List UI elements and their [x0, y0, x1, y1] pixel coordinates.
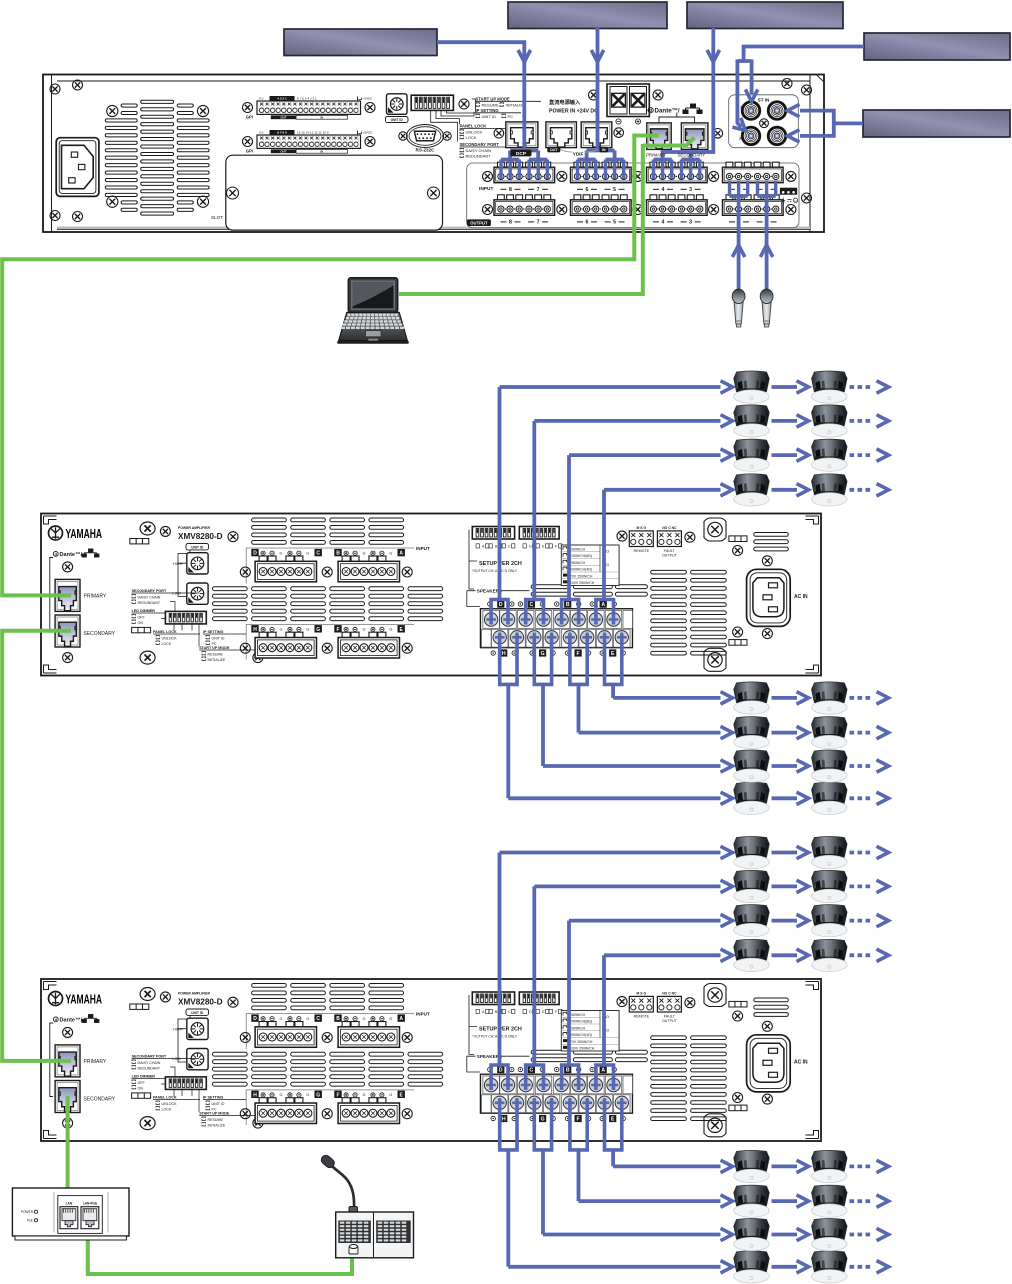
svg-text:B: B — [336, 551, 340, 557]
svg-text:G: G — [541, 651, 545, 657]
ceiling speaker — [812, 682, 848, 714]
svg-text:4: 4 — [662, 220, 665, 226]
vent grid MTX — [105, 100, 209, 215]
YAMAHA logo — [49, 992, 103, 1007]
svg-text:C: C — [508, 545, 511, 549]
svg-text:UNIT ID: UNIT ID — [191, 1011, 204, 1015]
speaker row (XMV2 ch) — [534, 870, 888, 902]
AC IN inlet — [747, 569, 791, 626]
svg-text:A: A — [399, 551, 403, 557]
svg-text:PRIMARY: PRIMARY — [84, 1059, 107, 1065]
svg-text:UNIT ID: UNIT ID — [212, 636, 225, 640]
speaker wires XMV2 outputs A-D — [491, 1065, 508, 1090]
svg-text:OFF: OFF — [138, 1081, 146, 1085]
svg-text:4: 4 — [662, 187, 665, 193]
ceiling speaker — [734, 439, 770, 471]
svg-text:UNIT ID: UNIT ID — [482, 114, 496, 119]
svg-text:AC IN: AC IN — [794, 1059, 808, 1065]
SETUP PER 2CH DIP blocks — [472, 992, 514, 1005]
SLOT — [226, 155, 443, 230]
svg-text:RESUME: RESUME — [208, 1118, 224, 1122]
svg-text:240W/CH(8Ω): 240W/CH(8Ω) — [570, 1020, 592, 1024]
RCA jack ST IN R — [767, 126, 786, 145]
svg-text:REDUNDANT: REDUNDANT — [466, 154, 492, 159]
RJ45 port Dante SECONDARY XMV1 — [55, 615, 80, 647]
speaker row (XMV1 ch) — [534, 405, 888, 437]
INPUT bracket — [246, 1014, 414, 1050]
svg-text:3: 3 — [689, 220, 692, 226]
device XMV8280-D power amplifier 2 rear panel — [41, 979, 821, 1141]
ceiling speaker — [734, 405, 770, 437]
callout box label 2 (YDIF device) — [508, 2, 667, 29]
svg-text:POWER AMPLIFIER: POWER AMPLIFIER — [178, 992, 210, 996]
svg-text:IP SETTING: IP SETTING — [203, 1096, 224, 1100]
svg-text:D: D — [253, 1016, 257, 1022]
svg-text:B: B — [336, 1016, 340, 1022]
svg-text:G: G — [306, 551, 309, 555]
speaker row (XMV2 ch) — [613, 1150, 888, 1182]
callout box label 5 (stereo source B) — [863, 110, 1010, 137]
ceiling speaker — [734, 1150, 770, 1182]
REMOTE connector — [629, 996, 653, 1012]
input euroblock D/C — [251, 1014, 258, 1021]
speaker row (XMV1 ch) — [569, 439, 889, 471]
svg-text:B: B — [566, 602, 570, 608]
svg-text:8 7 6 5: 8 7 6 5 — [277, 131, 287, 135]
svg-text:UNIT ID: UNIT ID — [391, 118, 404, 122]
DIP setting leader lines — [431, 99, 476, 142]
svg-text:IP SETTING: IP SETTING — [476, 108, 499, 113]
vent slats right — [651, 998, 789, 1121]
svg-text:260W/CH: 260W/CH — [570, 1013, 586, 1017]
svg-text:G: G — [316, 627, 320, 633]
svg-text:GPI: GPI — [246, 115, 253, 120]
RJ45 port Dante PRIMARY XMV2 — [55, 1045, 80, 1077]
svg-text:100V 250W/CH: 100V 250W/CH — [570, 1047, 595, 1051]
svg-text:RS-232C: RS-232C — [416, 148, 436, 153]
ceiling speaker — [734, 1251, 770, 1283]
GPI connector row 2 — [246, 130, 374, 154]
port labels over wires — [560, 150, 598, 153]
svg-text:G: G — [389, 1093, 392, 1097]
svg-text:5: 5 — [613, 220, 616, 226]
svg-text:G: G — [280, 1017, 283, 1021]
svg-text:HIGH: HIGH — [173, 562, 183, 566]
svg-text:UNLOCK: UNLOCK — [466, 130, 483, 135]
svg-text:16 15 14 13 12 11 10 9: 16 15 14 13 12 11 10 9 — [297, 130, 329, 134]
rack ear screws — [50, 84, 60, 94]
rotary switch UNIT ID MTX — [387, 94, 408, 115]
svg-text:PoE: PoE — [27, 1219, 33, 1223]
svg-text:RESUME: RESUME — [208, 652, 224, 656]
RJ45 port YDIF IN — [581, 122, 612, 148]
svg-text:G: G — [541, 1117, 545, 1123]
svg-text:8: 8 — [509, 187, 512, 193]
svg-text:Dante™/: Dante™/ — [60, 552, 83, 558]
speaker row (XMV1 ch) — [508, 782, 888, 814]
svg-text:NO C NC: NO C NC — [662, 526, 677, 530]
ceiling speaker — [812, 837, 848, 869]
svg-text:IN: IN — [602, 148, 606, 152]
svg-text:d: d — [649, 108, 652, 113]
UNIT ID rotary switches — [186, 544, 209, 550]
speaker row (XMV2 ch) — [508, 1251, 888, 1283]
RCA jack ST IN 2R — [741, 126, 760, 145]
svg-text:240W/CH(8Ω): 240W/CH(8Ω) — [570, 554, 592, 558]
svg-text:D: D — [529, 545, 532, 549]
ceiling speaker — [734, 939, 770, 971]
ceiling speaker — [812, 474, 848, 506]
REMOTE connector — [629, 531, 653, 547]
wire PoE switch to paging station (green) — [88, 1238, 352, 1274]
wire callout2 to YDIF input comb — [596, 28, 600, 151]
input euroblock H/G — [251, 1091, 258, 1098]
ceiling speaker — [812, 1219, 848, 1251]
vent slats left — [213, 984, 443, 1087]
ceiling speaker — [734, 870, 770, 902]
svg-text:NO C NC: NO C NC — [662, 992, 677, 996]
input euroblock F/E — [334, 625, 341, 632]
speaker wires XMV2 outputs E-H — [500, 1099, 517, 1150]
input euroblock D/C — [251, 549, 258, 556]
RJ45 port LAN — [60, 1207, 78, 1229]
svg-text:OUTPUT: OUTPUT — [662, 1019, 678, 1023]
ceiling speaker — [734, 1219, 770, 1251]
svg-text:LAN: LAN — [66, 1202, 73, 1206]
svg-text:A: A — [399, 1016, 403, 1022]
svg-text:Dante™/: Dante™/ — [655, 108, 680, 115]
svg-text:280W/CH: 280W/CH — [570, 1026, 586, 1030]
ceiling speaker — [812, 717, 848, 749]
POWER terminal block 24V — [607, 84, 649, 117]
wire Dante PRIMARY MTX to XMV1 PRIMARY (green) — [2, 136, 659, 596]
svg-text:LOCK: LOCK — [162, 642, 172, 646]
svg-text:E: E — [611, 1117, 615, 1123]
speaker row (XMV1 ch) — [613, 682, 888, 714]
RJ45 port Dante PRIMARY MTX — [647, 123, 671, 149]
svg-text:C: C — [508, 1010, 511, 1014]
RCA jack ST IN 2L — [741, 101, 760, 120]
svg-text:LED DIMMER: LED DIMMER — [132, 1075, 156, 1079]
Dante logo XMV — [53, 1017, 58, 1022]
ceiling speaker — [734, 717, 770, 749]
speaker row (XMV1 ch) — [579, 717, 889, 749]
svg-text:70V 250W/CH: 70V 250W/CH — [570, 1040, 593, 1044]
svg-text:SECONDARY: SECONDARY — [84, 631, 116, 637]
input euroblock H/G — [251, 625, 258, 632]
svg-text:YAMAHA: YAMAHA — [66, 993, 103, 1007]
svg-text:A: A — [601, 1068, 605, 1074]
svg-text:DAISY CHAIN: DAISY CHAIN — [138, 1061, 161, 1065]
svg-text:+5VDC: +5VDC — [363, 130, 374, 134]
svg-text:590W/CH(4Ω): 590W/CH(4Ω) — [570, 1033, 592, 1037]
svg-text:+5VDC: +5VDC — [363, 96, 374, 100]
svg-text:3: 3 — [689, 187, 692, 193]
svg-text:F: F — [336, 627, 339, 633]
input euroblock B/A — [334, 1014, 341, 1021]
svg-text:G: G — [280, 551, 283, 555]
svg-text:REMOTE: REMOTE — [634, 549, 650, 553]
svg-text:G: G — [389, 1017, 392, 1021]
DIP switch XMV — [165, 611, 206, 624]
ceiling speaker — [734, 682, 770, 714]
ceiling speaker — [812, 371, 848, 403]
INPUT bracket — [246, 548, 414, 584]
svg-text:*OUTPUT CH: A B C D ONLY: *OUTPUT CH: A B C D ONLY — [472, 569, 517, 573]
computer (laptop) — [337, 278, 409, 344]
UNIT ID rotary switches — [186, 1009, 209, 1015]
GPI connector row 1 — [246, 96, 374, 120]
svg-text:G: G — [280, 628, 283, 632]
svg-text:UNIT ID: UNIT ID — [191, 546, 204, 550]
svg-text:F: F — [336, 1092, 339, 1098]
svg-text:OUT: OUT — [550, 148, 558, 152]
ceiling speaker — [734, 474, 770, 506]
ceiling speaker — [812, 905, 848, 937]
power mode table — [561, 1011, 619, 1052]
YAMAHA logo — [49, 526, 103, 541]
svg-text:DAISY CHAIN: DAISY CHAIN — [138, 595, 161, 599]
svg-text:YDIF: YDIF — [573, 151, 584, 156]
svg-text:C: C — [316, 551, 320, 557]
device MTX5-D matrix processor rear panel — [43, 75, 824, 233]
ceiling speaker — [812, 1185, 848, 1217]
svg-text:PANEL LOCK: PANEL LOCK — [153, 1096, 177, 1100]
svg-text:ON: ON — [138, 1086, 144, 1090]
svg-text:D: D — [529, 1010, 532, 1014]
ceiling speaker — [812, 870, 848, 902]
svg-text:POWER: POWER — [21, 1210, 34, 1214]
svg-text:YAMAHA: YAMAHA — [66, 527, 103, 541]
svg-text:LOCK: LOCK — [466, 135, 477, 140]
svg-text:G: G — [363, 628, 366, 632]
svg-text:UNLOCK: UNLOCK — [162, 636, 178, 640]
svg-text:LAN+PoE: LAN+PoE — [83, 1202, 98, 1206]
svg-text:SECONDARY: SECONDARY — [84, 1097, 116, 1103]
svg-text:100V 250W/CH: 100V 250W/CH — [570, 581, 595, 585]
svg-text:7: 7 — [537, 220, 540, 226]
svg-text:G: G — [363, 1093, 366, 1097]
svg-text:START UP MODE: START UP MODE — [199, 646, 230, 650]
svg-text:2R: 2R — [739, 137, 744, 141]
DIP switch XMV — [165, 1077, 206, 1090]
speaker row (XMV2 ch) — [543, 1219, 889, 1251]
vent slats left — [213, 518, 443, 621]
svg-text:D: D — [499, 1068, 503, 1074]
svg-text:C: C — [530, 1068, 534, 1074]
svg-text:M S G: M S G — [636, 992, 646, 996]
svg-text:DAISY CHAIN: DAISY CHAIN — [466, 148, 492, 153]
svg-text:PC: PC — [508, 114, 514, 119]
wire Dante SECONDARY MTX to computer (green) — [643, 138, 695, 146]
wire callout5 to ST IN L R — [834, 122, 863, 126]
svg-text:IN: IN — [320, 150, 323, 154]
svg-text:SECONDARY PORT: SECONDARY PORT — [132, 589, 167, 593]
speaker row (XMV1 ch) — [543, 750, 889, 782]
svg-text:8: 8 — [509, 220, 512, 226]
ceiling speaker — [734, 905, 770, 937]
AC inlet MTX — [56, 138, 99, 197]
svg-text:XMV8280-D: XMV8280-D — [178, 998, 223, 1007]
FAULT OUTPUT connector — [657, 531, 681, 547]
RS-232C port — [399, 125, 451, 148]
RJ45 port Dante SECONDARY XMV2 — [55, 1081, 80, 1113]
svg-text:4 3 2 1: 4 3 2 1 — [277, 97, 287, 101]
Dante logo MTX — [648, 108, 653, 113]
svg-text:G: G — [389, 628, 392, 632]
svg-text:H: H — [502, 1117, 506, 1123]
svg-text:AC IN: AC IN — [794, 594, 808, 600]
svg-text:*OUTPUT CH: A B C D ONLY: *OUTPUT CH: A B C D ONLY — [472, 1035, 517, 1039]
svg-text:ON: ON — [138, 621, 144, 625]
svg-text:IN: IN — [320, 116, 323, 120]
vent slats right — [651, 533, 789, 656]
speaker row (XMV1 ch) — [500, 371, 889, 403]
OUTPUT euroblocks MTX — [493, 199, 556, 203]
FAULT OUTPUT connector — [657, 996, 681, 1012]
svg-text:UNIT ID: UNIT ID — [212, 1102, 225, 1106]
ceiling speaker — [812, 750, 848, 782]
callout box label 4 (stereo source A) — [864, 33, 1010, 60]
svg-text:INPUT: INPUT — [479, 186, 493, 192]
svg-text:7: 7 — [537, 187, 540, 193]
wire callout4 to ST IN 2L 2R — [744, 47, 864, 60]
svg-text:G: G — [363, 1017, 366, 1021]
svg-text:LED DIMMER: LED DIMMER — [132, 609, 156, 613]
microphone 2 — [760, 289, 773, 327]
svg-text:H: H — [502, 651, 506, 657]
callout box label 1 (DCP controller) — [284, 29, 437, 56]
bracket Dante ports — [659, 113, 695, 123]
RJ45 port Dante PRIMARY XMV1 — [55, 579, 80, 611]
power mode table — [561, 545, 619, 586]
svg-text:OFF: OFF — [138, 615, 146, 619]
svg-text:D: D — [499, 602, 503, 608]
svg-text:UNLOCK: UNLOCK — [162, 1102, 178, 1106]
svg-text:G: G — [306, 1017, 309, 1021]
svg-text:G: G — [306, 1093, 309, 1097]
paging microphone station — [320, 1154, 414, 1258]
speaker row (XMV2 ch) — [500, 837, 889, 869]
svg-text:GPI: GPI — [246, 149, 253, 154]
svg-text:U: U — [794, 199, 796, 203]
svg-text:INITIALIZE: INITIALIZE — [208, 1123, 226, 1127]
RJ45 port LAN+PoE — [81, 1207, 99, 1229]
svg-text:START UP MODE: START UP MODE — [199, 1112, 230, 1116]
ceiling speaker — [812, 782, 848, 814]
input euroblock B/A — [334, 549, 341, 556]
svg-text:G: G — [316, 1092, 320, 1098]
RJ45 port DCP — [506, 122, 538, 148]
svg-text:G: G — [363, 551, 366, 555]
svg-text:XMV8280-D: XMV8280-D — [178, 532, 223, 541]
ceiling speaker — [812, 1150, 848, 1182]
svg-text:PANEL LOCK: PANEL LOCK — [460, 123, 487, 128]
ceiling speaker — [734, 750, 770, 782]
svg-text:INPUT: INPUT — [416, 1011, 430, 1016]
speaker row (XMV1 ch) — [604, 474, 889, 506]
svg-text:HIGH: HIGH — [173, 1028, 183, 1032]
Dante logo XMV — [53, 552, 58, 557]
speaker row (XMV2 ch) — [604, 939, 889, 971]
ST IN RCA block — [729, 95, 799, 148]
svg-text:6: 6 — [586, 187, 589, 193]
callout box label 3 (Dante device) — [687, 2, 843, 29]
input euroblock F/E — [334, 1091, 341, 1098]
wire callout3 to Dante input comb — [663, 28, 714, 160]
svg-text:A: A — [601, 602, 605, 608]
svg-text:8 7 6 5 4 3 2 1: 8 7 6 5 4 3 2 1 — [297, 96, 317, 100]
svg-text:D: D — [253, 551, 257, 557]
svg-text:Dante™/: Dante™/ — [60, 1018, 83, 1024]
svg-text:START UP MODE: START UP MODE — [476, 96, 510, 101]
svg-text:直流电源输入: 直流电源输入 — [549, 98, 581, 106]
svg-text:SECONDARY PORT: SECONDARY PORT — [460, 142, 500, 147]
INPUT euroblocks MTX — [494, 162, 555, 183]
svg-text:SECONDARY: SECONDARY — [678, 152, 706, 157]
svg-text:POWER AMPLIFIER: POWER AMPLIFIER — [178, 526, 210, 530]
svg-text:0 0: 0 0 — [259, 130, 264, 134]
ceiling speaker — [812, 405, 848, 437]
svg-text:LOCK: LOCK — [162, 1107, 172, 1111]
RJ45 port Dante SECONDARY MTX — [681, 123, 708, 149]
svg-text:F: F — [577, 1117, 580, 1123]
svg-text:C: C — [530, 602, 534, 608]
svg-text:OUT: OUT — [280, 116, 286, 120]
ceiling speaker — [734, 782, 770, 814]
svg-text:PRIMARY: PRIMARY — [646, 152, 666, 157]
svg-text:E: E — [611, 651, 615, 657]
svg-text:280W/CH: 280W/CH — [570, 561, 586, 565]
svg-text:0 0: 0 0 — [259, 96, 264, 100]
ceiling speaker — [734, 837, 770, 869]
microphone 1 — [732, 289, 745, 327]
svg-text:PRIMARY: PRIMARY — [84, 594, 107, 600]
ceiling speaker — [734, 1185, 770, 1217]
speaker wires XMV1 outputs E-H — [500, 634, 517, 685]
svg-text:INPUT: INPUT — [416, 546, 430, 551]
ceiling speaker — [812, 1251, 848, 1283]
DIP switch MTX — [411, 95, 453, 110]
speaker row (XMV2 ch) — [569, 905, 889, 937]
svg-text:IP SETTING: IP SETTING — [203, 630, 224, 634]
device XMV8280-D power amplifier 1 rear panel — [41, 514, 821, 676]
wire microphones to MIC input comb — [728, 181, 731, 196]
SETUP PER 2CH DIP blocks — [472, 527, 514, 540]
svg-text:REDUNDANT: REDUNDANT — [138, 601, 161, 605]
RCA jack ST IN L — [767, 101, 786, 120]
wire XMV1 SECONDARY to XMV2 PRIMARY daisy chain (green) — [2, 631, 71, 1061]
AC IN inlet — [747, 1035, 791, 1092]
svg-text:OUT: OUT — [280, 150, 286, 154]
svg-text:G: G — [389, 551, 392, 555]
svg-text:6: 6 — [586, 220, 589, 226]
PoE network switch — [12, 1188, 129, 1240]
svg-text:ST IN: ST IN — [758, 98, 770, 103]
svg-text:2L: 2L — [740, 106, 745, 110]
svg-text:G: G — [280, 1093, 283, 1097]
svg-text:OUTPUT: OUTPUT — [662, 553, 678, 557]
svg-text:590W/CH(4Ω): 590W/CH(4Ω) — [570, 568, 592, 572]
svg-text:REDUNDANT: REDUNDANT — [138, 1066, 161, 1070]
svg-text:70V 250W/CH: 70V 250W/CH — [570, 574, 593, 578]
svg-text:SECONDARY PORT: SECONDARY PORT — [132, 1055, 167, 1059]
svg-text:LOW: LOW — [172, 592, 181, 596]
svg-text:F: F — [577, 651, 580, 657]
svg-text:M S G: M S G — [636, 526, 646, 530]
svg-text:B: B — [566, 1068, 570, 1074]
svg-text:H: H — [253, 1092, 257, 1098]
